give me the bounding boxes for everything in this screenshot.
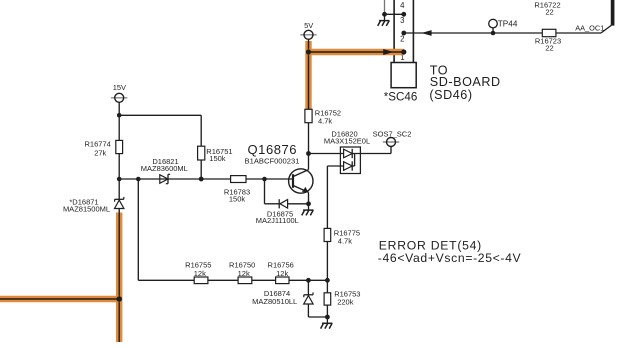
svg-text:MAZ83600ML: MAZ83600ML xyxy=(141,164,188,173)
svg-text:12k: 12k xyxy=(194,269,206,278)
svg-text:4: 4 xyxy=(400,1,405,10)
svg-text:MA3X152E0L: MA3X152E0L xyxy=(324,137,370,146)
svg-text:5V: 5V xyxy=(304,21,313,30)
svg-text:220k: 220k xyxy=(337,297,354,306)
svg-text:150k: 150k xyxy=(229,195,246,204)
svg-text:12k: 12k xyxy=(238,269,250,278)
svg-text:27k: 27k xyxy=(94,148,106,157)
svg-text:R16774: R16774 xyxy=(85,140,111,149)
svg-text:4.7k: 4.7k xyxy=(338,236,352,245)
svg-text:15V: 15V xyxy=(113,83,126,92)
svg-text:SOS7_SC2: SOS7_SC2 xyxy=(373,129,412,138)
svg-text:Q16876: Q16876 xyxy=(248,142,298,157)
svg-text:2: 2 xyxy=(400,34,404,43)
svg-text:MAZ81500ML: MAZ81500ML xyxy=(63,205,110,214)
svg-text:AA_OC1: AA_OC1 xyxy=(575,24,604,33)
svg-text:B1ABCF000231: B1ABCF000231 xyxy=(245,157,300,166)
svg-text:TP44: TP44 xyxy=(498,20,518,29)
svg-text:(SD46): (SD46) xyxy=(429,88,472,102)
svg-text:12k: 12k xyxy=(276,269,288,278)
svg-text:3: 3 xyxy=(400,16,404,25)
svg-text:22: 22 xyxy=(545,43,553,52)
svg-text:-46<Vad+Vscn=-25<-4V: -46<Vad+Vscn=-25<-4V xyxy=(378,251,522,265)
svg-text:*SC46: *SC46 xyxy=(384,90,418,103)
svg-text:MA2J11100L: MA2J11100L xyxy=(256,216,299,225)
svg-text:MAZ80510LL: MAZ80510LL xyxy=(252,297,297,306)
svg-text:150k: 150k xyxy=(209,154,226,163)
svg-text:4.7k: 4.7k xyxy=(318,117,332,126)
svg-text:22: 22 xyxy=(545,7,553,16)
